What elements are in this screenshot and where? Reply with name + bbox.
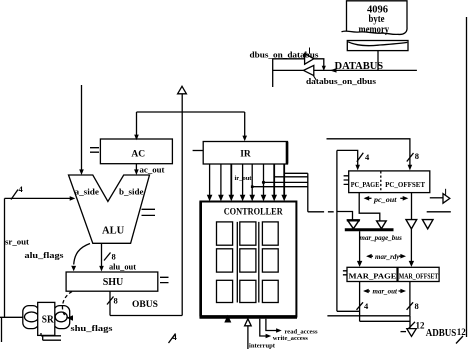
shift register SR right lobe — [54, 306, 70, 329]
svg-text:12: 12 — [457, 327, 467, 337]
wire branch to buffer 1 — [337, 212, 353, 221]
svg-text:8: 8 — [112, 252, 116, 262]
buffer to ADBUS (open triangle down) — [407, 329, 417, 337]
SR stand lines — [41, 333, 61, 340]
svg-text:CONTROLLER: CONTROLLER — [224, 206, 283, 216]
clock marks MAR — [343, 271, 347, 275]
node sr_out vertical — [4, 198, 6, 317]
clock marks AC — [90, 148, 99, 153]
svg-text:a_side: a_side — [75, 188, 100, 197]
wire left edge artifact — [1, 317, 3, 342]
svg-text:ir_out: ir_out — [235, 175, 253, 182]
wire ac_out AC to ALU b_side — [135, 164, 137, 172]
bus width slash 4 on sr_out — [11, 190, 18, 200]
tri-state buffer 2 (pc page) — [377, 221, 387, 229]
controller grid cells — [217, 222, 279, 303]
svg-text:alu_flags: alu_flags — [25, 250, 65, 260]
wire PC to right buffer — [430, 197, 443, 199]
wire into AC top — [136, 112, 138, 137]
svg-text:SHU: SHU — [103, 277, 124, 288]
wire mar_out left arrow — [365, 290, 371, 292]
wire ir_out taps to PC/MAR section — [284, 172, 308, 174]
register MAR — [347, 267, 439, 281]
clock marks ALU — [142, 209, 156, 215]
svg-text:ADBUS: ADBUS — [426, 328, 457, 339]
wire sr_out to ALU left — [5, 197, 72, 199]
node OBUS rising line with open arrow — [181, 94, 183, 316]
DATABUS line — [314, 69, 417, 71]
svg-text:mar_rdy: mar_rdy — [375, 253, 400, 261]
mar_page_bus thick bar — [345, 228, 394, 231]
wire PC_PAGE output to buffer 2 — [359, 193, 380, 221]
wire alu_out ALU to SHU — [101, 243, 103, 268]
svg-text:8: 8 — [415, 151, 419, 161]
memory lower box — [347, 41, 408, 51]
svg-text:databus_on_dbus: databus_on_dbus — [306, 76, 377, 86]
wire into SR — [0, 316, 24, 318]
svg-text:mar_out: mar_out — [373, 288, 399, 296]
svg-text:ac_out: ac_out — [140, 165, 165, 174]
wire taps merged vertical — [307, 173, 309, 212]
shifter SHU — [66, 272, 158, 291]
clock mark IR — [193, 150, 203, 152]
svg-text:PC_OFFSET: PC_OFFSET — [385, 180, 426, 189]
register PC — [349, 171, 430, 193]
shift register SR body — [38, 302, 55, 335]
wire OBUS feedback line to AC and IR — [137, 111, 245, 113]
wire buffer3 to MAR_OFFSET — [410, 229, 412, 262]
shift register SR left lobe — [23, 306, 39, 329]
wire long vertical joins page output — [337, 310, 360, 312]
wire mar_out right arrow — [399, 290, 405, 292]
svg-text:dbus_on_databus: dbus_on_databus — [250, 50, 320, 60]
arrowhead on DATABUS pointing left — [330, 68, 337, 72]
svg-text:mar_page_bus: mar_page_bus — [360, 234, 403, 242]
svg-text:IR: IR — [240, 150, 251, 160]
svg-text:pc_out: pc_out — [373, 196, 398, 204]
svg-text:MAR_OFFSET: MAR_OFFSET — [399, 272, 439, 281]
arrow into controller bottom (filled) — [224, 315, 231, 323]
wire memory box to DATABUS — [377, 51, 379, 71]
svg-text:OBUS: OBUS — [132, 300, 158, 310]
wire ir_out lines to controller — [210, 164, 285, 196]
arrowheads into controller — [207, 195, 287, 202]
wire mar_rdy left arrow — [368, 255, 374, 257]
wire dbus stub input to top buffer — [273, 58, 305, 60]
bus width slash 4 floating near OBUS — [169, 334, 176, 344]
wire read_access — [266, 319, 278, 331]
tri-state buffer pc to adbus — [443, 194, 450, 204]
tri-state buffer 1 (page wr) — [348, 220, 360, 228]
svg-text:PC_PAGE: PC_PAGE — [351, 180, 380, 189]
node long page vertical — [336, 150, 338, 311]
svg-text:DATABUS: DATABUS — [335, 61, 384, 72]
svg-text:8: 8 — [415, 301, 419, 311]
tri-state buffer 3 (pc offset) — [406, 220, 417, 229]
register AC — [100, 139, 172, 164]
svg-text:sr_out: sr_out — [5, 237, 29, 247]
controller grid separators — [237, 222, 258, 303]
wire dbus to PC_OFFSET — [327, 139, 410, 166]
wire bar to MAR_PAGE — [359, 231, 361, 262]
memory 4096 byte — [342, 1, 408, 35]
clock marks SHU — [160, 277, 169, 282]
wire ADBUS right edge vertical — [466, 17, 468, 337]
svg-text:memory: memory — [359, 25, 390, 36]
wire dashed control to MAR page logic — [308, 211, 451, 213]
svg-text:alu_out: alu_out — [109, 263, 136, 272]
bus width slash 12 on ADBUS — [456, 336, 463, 344]
tri-state buffer databus_on_dbus — [304, 65, 317, 80]
svg-text:SR: SR — [42, 315, 55, 326]
wire MAR_OFFSET output down — [409, 282, 411, 316]
svg-text:ALU: ALU — [102, 226, 125, 237]
wire interrupt — [247, 325, 249, 349]
clock marks PC — [344, 176, 349, 185]
wire SHU to OBUS with slash 8 — [109, 291, 111, 315]
svg-text:AC: AC — [131, 150, 145, 160]
wire shu_flags dashed curve — [62, 292, 72, 319]
wire page feedback U to PC_PAGE — [337, 150, 358, 165]
wire into IR top — [244, 112, 246, 138]
svg-text:write_access: write_access — [273, 335, 308, 342]
register IR — [203, 142, 287, 165]
wire write_access — [260, 319, 268, 336]
wire pc_out left arrow — [365, 197, 372, 199]
svg-text:interrupt: interrupt — [249, 343, 276, 349]
wire alu_flags curve ALU to SHU — [74, 244, 90, 265]
wire mar_rdy right arrow — [399, 255, 405, 257]
wire top buffer output to DATABUS — [314, 59, 324, 68]
wire merge horizontals to adbus — [327, 315, 410, 317]
svg-text:12: 12 — [416, 321, 426, 331]
bus width slash 8 on alu_out — [104, 253, 111, 261]
tri-state buffer dbus_on_databus — [305, 48, 314, 65]
svg-text:8: 8 — [114, 296, 118, 306]
svg-text:MAR_PAGE: MAR_PAGE — [349, 272, 397, 281]
svg-text:b_side: b_side — [119, 188, 144, 197]
wire PC_OFFSET output down through buffer 3 — [411, 193, 413, 220]
wire adbus drop with slash 12 — [409, 316, 411, 329]
wire OBUS bottom — [110, 315, 182, 317]
wire pc_out right arrow — [400, 197, 406, 199]
wire input to a_side — [81, 85, 83, 171]
wire MAR_PAGE output down — [359, 282, 361, 322]
ALU trapezoid — [69, 175, 150, 243]
wire bottom buffer output to dbus stub — [273, 69, 304, 71]
svg-text:shu_flags: shu_flags — [71, 323, 114, 333]
node dbus stub — [272, 59, 274, 87]
tri-state buffer 4 — [422, 220, 433, 229]
controller box — [200, 202, 296, 317]
svg-text:byte: byte — [369, 14, 385, 25]
